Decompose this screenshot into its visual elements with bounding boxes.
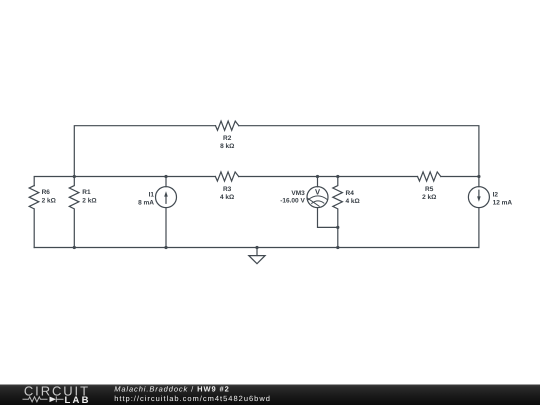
resistor R3 [215, 172, 238, 181]
svg-text:2 kΩ: 2 kΩ [82, 198, 96, 205]
voltmeter VM3 [307, 177, 338, 228]
node junction VM3/R4 bottom [336, 226, 339, 229]
resistor R5 [418, 172, 441, 181]
wire bottom rail [34, 247, 479, 249]
wire top rail right segment [239, 126, 479, 187]
current source I1 [156, 177, 177, 248]
svg-text:R3: R3 [223, 186, 232, 193]
wire top rail left segment [74, 126, 215, 177]
svg-text:I1: I1 [149, 191, 155, 198]
logo resistor-diode squiggle [23, 396, 64, 402]
svg-text:http://circuitlab.com/cm4t5482: http://circuitlab.com/cm4t5482u6bwd [114, 394, 271, 403]
node junction I1 bottom [164, 246, 167, 249]
resistor R6 [29, 186, 39, 248]
ground [249, 248, 265, 264]
svg-text:R2: R2 [223, 135, 232, 142]
svg-text:4 kΩ: 4 kΩ [220, 194, 234, 201]
svg-text:LAB: LAB [65, 395, 91, 405]
svg-text:Malachi.Braddock / HW9 #2: Malachi.Braddock / HW9 #2 [114, 385, 229, 394]
wire middle rail right segment [441, 176, 479, 178]
node junction R1 bottom [73, 246, 76, 249]
resistor R2 [216, 121, 239, 130]
svg-text:R6: R6 [42, 189, 51, 196]
svg-text:8 kΩ: 8 kΩ [220, 143, 234, 150]
svg-text:2 kΩ: 2 kΩ [422, 194, 436, 201]
svg-text:R4: R4 [346, 190, 355, 197]
svg-text:R1: R1 [82, 189, 91, 196]
node junction I1 top [164, 175, 167, 178]
svg-text:8 mA: 8 mA [138, 199, 154, 206]
node junction R1 top [73, 175, 76, 178]
node junction VM3 top [316, 175, 319, 178]
footer bar [0, 385, 540, 405]
node junction R4 top [336, 175, 339, 178]
node junction ground [255, 246, 258, 249]
svg-text:I2: I2 [493, 191, 499, 198]
resistor R1 [69, 177, 79, 248]
node junction R4 bottom [336, 246, 339, 249]
node junction I2 [477, 175, 480, 178]
svg-text:VM3: VM3 [291, 190, 305, 197]
svg-text:-16.00 V: -16.00 V [280, 198, 305, 205]
wire middle rail left segment [34, 177, 215, 186]
current source I2 [468, 187, 489, 248]
svg-text:4 kΩ: 4 kΩ [346, 198, 360, 205]
svg-text:2 kΩ: 2 kΩ [42, 198, 56, 205]
svg-text:R5: R5 [425, 186, 434, 193]
wire middle rail center segment [239, 176, 418, 178]
resistor R4 [333, 177, 343, 248]
svg-text:12 mA: 12 mA [493, 199, 513, 206]
